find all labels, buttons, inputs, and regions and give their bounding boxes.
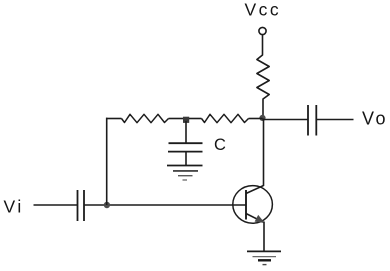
wire collector node to output capacitor bbox=[263, 119, 308, 121]
label Vo bbox=[362, 109, 388, 129]
svg-text:Vo: Vo bbox=[362, 109, 388, 129]
ground (capacitor C) bbox=[167, 166, 203, 181]
svg-text:Vi: Vi bbox=[4, 197, 24, 217]
terminal Vcc bbox=[259, 27, 266, 34]
svg-text:C: C bbox=[214, 136, 226, 154]
label C bbox=[214, 136, 226, 154]
transistor Q1 body bbox=[233, 186, 273, 224]
wire between L1 and node bbox=[169, 118, 184, 120]
inductor L1 (feedback left zigzag) bbox=[122, 114, 169, 122]
label Vcc bbox=[245, 0, 282, 20]
resistor (collector load) bbox=[257, 52, 269, 103]
wire Vi to input capacitor bbox=[34, 204, 78, 206]
transistor Q1 base bar bbox=[245, 190, 247, 220]
wire L2 to collector node bbox=[249, 118, 263, 120]
inductor L2 (feedback right zigzag) bbox=[202, 114, 249, 122]
capacitor input coupling bbox=[78, 190, 85, 221]
wire capacitor C to ground bbox=[185, 152, 187, 165]
transistor Q1 emitter stroke with arrow bbox=[246, 214, 265, 224]
wire output capacitor to Vo bbox=[317, 119, 354, 121]
ground (emitter) bbox=[247, 251, 281, 264]
svg-text:Vcc: Vcc bbox=[245, 0, 282, 20]
node C tap (square) bbox=[183, 117, 189, 123]
wire feedback left vertical bbox=[106, 118, 108, 205]
node base junction bbox=[104, 202, 110, 208]
wire feedback top left segment bbox=[106, 118, 122, 120]
wire between node and L2 bbox=[189, 118, 202, 120]
label Vi bbox=[4, 197, 24, 217]
capacitor C bbox=[168, 143, 203, 151]
wire Vcc terminal to resistor bbox=[262, 35, 264, 52]
wire resistor to collector node bbox=[262, 103, 264, 119]
wire input capacitor to base bbox=[85, 204, 247, 206]
transistor Q1 collector stroke bbox=[246, 186, 264, 194]
wire node to capacitor C bbox=[185, 121, 187, 143]
wire collector vertical bbox=[263, 119, 265, 187]
wire emitter vertical bbox=[263, 222, 265, 252]
capacitor output coupling bbox=[308, 105, 316, 136]
node collector junction bbox=[259, 115, 265, 121]
